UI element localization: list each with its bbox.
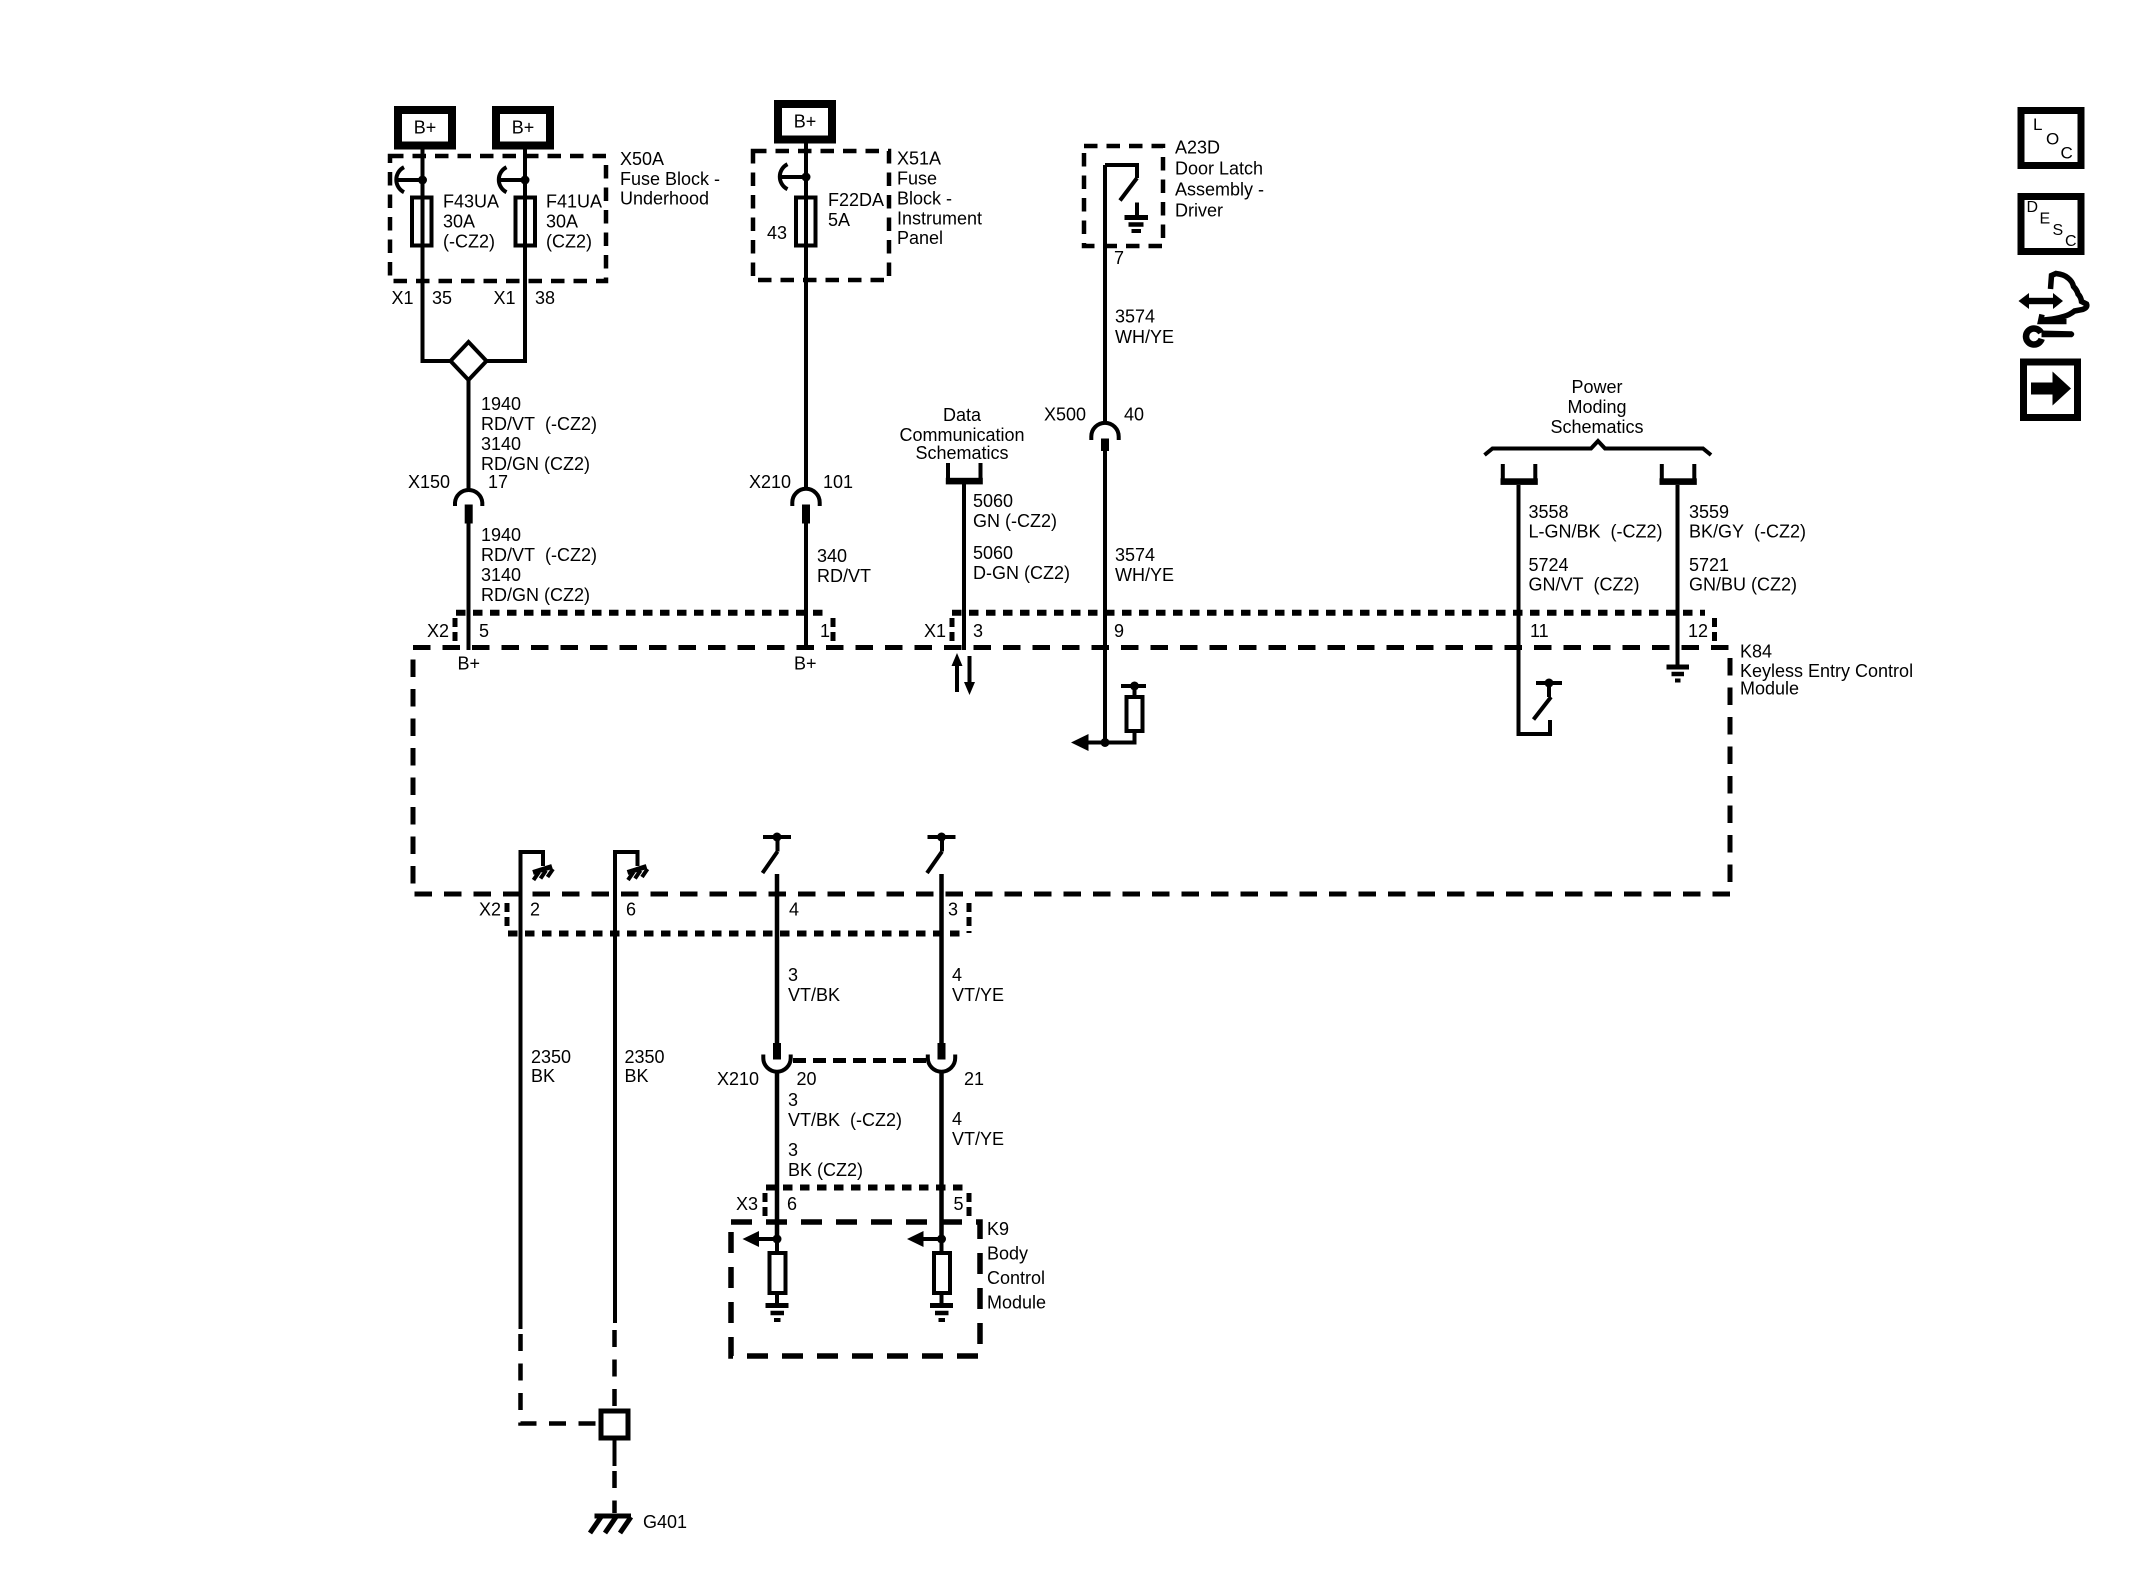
svg-text:O: O <box>2046 130 2059 149</box>
internal circuit K9 pin 5: arrow, resistor, ground <box>907 1231 953 1320</box>
fuse F22DA <box>796 198 816 246</box>
svg-text:2350: 2350 <box>531 1047 571 1067</box>
wire label 3 VT/BK <box>788 965 840 1005</box>
svg-text:B+: B+ <box>512 118 535 138</box>
svg-text:X500: X500 <box>1044 405 1086 425</box>
svg-text:X1: X1 <box>493 288 515 308</box>
svg-text:BK: BK <box>531 1066 555 1086</box>
svg-text:12: 12 <box>1688 621 1708 641</box>
wire from B+ 3 through fuse F22DA down to X210 <box>804 142 808 489</box>
tick after pin 12 <box>1712 618 1717 643</box>
svg-text:GN/BU (CZ2): GN/BU (CZ2) <box>1689 575 1797 595</box>
wire label 3574 WH/YE upper <box>1115 307 1174 348</box>
svg-text:1: 1 <box>820 621 830 641</box>
svg-text:K84: K84 <box>1740 642 1772 662</box>
connector pin row top (X2/X1) <box>456 610 1705 616</box>
connector pin row bottom (X2) <box>508 931 963 937</box>
fuse terminal clip symbol 3 <box>780 164 811 189</box>
svg-text:20: 20 <box>797 1069 817 1089</box>
wire from X500 down into module to pin 9 resistor node <box>1103 451 1107 743</box>
wire X210 21 down to K9 pin 5 <box>939 1072 944 1239</box>
svg-text:VT/BK (-CZ2): VT/BK (-CZ2) <box>788 1110 902 1130</box>
DESC info box <box>2021 197 2081 252</box>
pin label 3 <box>948 900 958 920</box>
svg-text:17: 17 <box>488 472 508 492</box>
svg-text:5: 5 <box>479 621 489 641</box>
ground inside A23D <box>1125 203 1149 232</box>
svg-text:B+: B+ <box>414 118 437 138</box>
wire from right connector to module pin 12 ground <box>1676 485 1680 666</box>
svg-text:3: 3 <box>788 1090 798 1110</box>
wire label 340 RD/VT <box>817 546 871 586</box>
svg-text:Module: Module <box>1740 679 1799 699</box>
forward reference icon box <box>2024 362 2078 418</box>
tick X2 bottom <box>505 903 510 928</box>
svg-text:11: 11 <box>1530 621 1549 641</box>
in-line connector X210 terminal 21 <box>928 1043 955 1072</box>
off-page connector for data communication <box>946 463 983 484</box>
switch symbol at pin 11 inside module <box>1534 679 1563 720</box>
label F43UA 30A (-CZ2) <box>443 192 499 252</box>
svg-text:3558: 3558 <box>1529 502 1569 522</box>
pin label 4 <box>789 900 799 920</box>
off-page connector to power moding right <box>1660 464 1697 485</box>
svg-text:Driver: Driver <box>1175 201 1223 221</box>
svg-text:VT/YE: VT/YE <box>952 1129 1004 1149</box>
wire pin 2 dashed part to splice <box>521 1334 597 1424</box>
svg-text:X2: X2 <box>479 900 501 920</box>
pin label 6 <box>626 900 636 920</box>
svg-text:BK (CZ2): BK (CZ2) <box>788 1160 863 1180</box>
svg-text:RD/VT (-CZ2): RD/VT (-CZ2) <box>481 414 597 434</box>
svg-text:(-CZ2): (-CZ2) <box>443 232 495 252</box>
internal label B+ pin 5 <box>458 654 481 674</box>
brace for power moding schematics <box>1485 441 1712 455</box>
label F22DA 5A <box>828 190 884 230</box>
pin label X1 35 <box>391 288 452 308</box>
fuse F43UA <box>412 198 432 246</box>
pin label 5 <box>954 1194 964 1214</box>
wire X210 20 down to K9 pin 6 <box>775 1072 780 1239</box>
svg-text:VT/BK: VT/BK <box>788 985 840 1005</box>
pin label 12 <box>1688 621 1708 641</box>
pin label X1 38 <box>493 288 555 308</box>
svg-text:3: 3 <box>973 621 983 641</box>
svg-text:D: D <box>2027 199 2039 216</box>
tick X3 <box>763 1193 768 1216</box>
svg-text:5721: 5721 <box>1689 555 1729 575</box>
svg-text:X50A: X50A <box>620 149 664 169</box>
internal ground hook pin 6 <box>615 852 648 894</box>
svg-text:340: 340 <box>817 546 847 566</box>
svg-text:RD/GN (CZ2): RD/GN (CZ2) <box>481 454 590 474</box>
tick after bottom pin 3 <box>967 903 972 933</box>
svg-text:GN/VT (CZ2): GN/VT (CZ2) <box>1529 575 1640 595</box>
svg-text:B+: B+ <box>458 654 481 674</box>
svg-text:WH/YE: WH/YE <box>1115 327 1174 347</box>
svg-text:RD/GN (CZ2): RD/GN (CZ2) <box>481 585 590 605</box>
pin label 1 <box>820 621 830 641</box>
svg-text:Fuse Block -: Fuse Block - <box>620 169 720 189</box>
connector label X150 17 <box>408 472 508 492</box>
door ajar switch inside A23D <box>1105 165 1137 201</box>
wire from data comm connector to module pin 3 <box>962 484 966 650</box>
svg-text:3574: 3574 <box>1115 545 1155 565</box>
body control module K9 dashed outline <box>731 1222 980 1356</box>
in-line connector X210 terminal 20 <box>763 1043 790 1072</box>
wire pin 6 to G401 solid part <box>613 874 617 1323</box>
svg-text:6: 6 <box>626 900 636 920</box>
svg-text:L-GN/BK (-CZ2): L-GN/BK (-CZ2) <box>1529 522 1663 542</box>
svg-text:Power: Power <box>1571 377 1622 397</box>
svg-text:GN (-CZ2): GN (-CZ2) <box>973 511 1057 531</box>
pin label 7 <box>1114 248 1124 268</box>
svg-text:Block -: Block - <box>897 189 952 209</box>
svg-text:E: E <box>2040 211 2051 228</box>
svg-text:43: 43 <box>767 223 787 243</box>
wire label 2350 BK left <box>531 1047 571 1086</box>
svg-text:3: 3 <box>788 965 798 985</box>
svg-text:F22DA: F22DA <box>828 190 884 210</box>
svg-text:3: 3 <box>948 900 958 920</box>
wire from B+ 1 through fuse F43UA down to splice <box>423 148 453 361</box>
wire label 3574 WH/YE lower <box>1115 545 1174 585</box>
ground symbol at pin 12 inside module <box>1667 667 1690 681</box>
wire label 1940 RD/VT (-CZ2) 3140 RD/GN (CZ2) upper <box>481 394 597 474</box>
svg-text:4: 4 <box>952 965 962 985</box>
svg-text:WH/YE: WH/YE <box>1115 565 1174 585</box>
svg-text:X210: X210 <box>749 472 791 492</box>
internal resistor circuit at pin 9 <box>1071 682 1146 752</box>
pin label 9 <box>1114 621 1124 641</box>
label X51A Fuse Block - Instrument Panel <box>897 149 982 249</box>
label F41UA 30A (CZ2) <box>546 192 602 252</box>
svg-text:Instrument: Instrument <box>897 209 982 229</box>
fuse terminal clip symbol 1 <box>396 167 427 192</box>
svg-text:Assembly -: Assembly - <box>1175 180 1264 200</box>
svg-text:X51A: X51A <box>897 149 941 169</box>
wire label 5060 GN (-CZ2) / 5060 D-GN (CZ2) <box>973 491 1070 583</box>
svg-text:6: 6 <box>787 1194 797 1214</box>
connector label X500 40 <box>1044 405 1144 425</box>
svg-text:BK/GY (-CZ2): BK/GY (-CZ2) <box>1689 522 1806 542</box>
svg-text:35: 35 <box>432 288 452 308</box>
svg-text:38: 38 <box>535 288 555 308</box>
svg-text:101: 101 <box>823 472 853 492</box>
pin label X2 5 <box>427 621 489 641</box>
fuse F41UA <box>516 198 536 246</box>
svg-text:X210: X210 <box>717 1069 759 1089</box>
tick X2 top <box>453 618 458 642</box>
svg-text:B+: B+ <box>794 654 817 674</box>
wire label 3 VT/BK (-CZ2) 3 BK (CZ2) <box>788 1090 902 1180</box>
svg-text:Body: Body <box>987 1244 1028 1264</box>
wire label 4 VT/YE lower <box>952 1109 1004 1149</box>
in-line connector X210 terminal 101 <box>792 489 819 524</box>
label A23D Door Latch Assembly - Driver <box>1175 138 1264 221</box>
svg-text:X150: X150 <box>408 472 450 492</box>
connector label X210 101 <box>749 472 853 492</box>
wire from splice down to X150 connector <box>467 380 471 489</box>
svg-text:5724: 5724 <box>1529 555 1569 575</box>
svg-text:(CZ2): (CZ2) <box>546 232 592 252</box>
svg-text:VT/YE: VT/YE <box>952 985 1004 1005</box>
svg-text:Schematics: Schematics <box>1550 417 1643 437</box>
svg-text:K9: K9 <box>987 1219 1009 1239</box>
ground G401 <box>590 1516 631 1533</box>
wire label 1940 RD/VT (-CZ2) 3140 RD/GN (CZ2) lower <box>481 525 597 605</box>
label Data Communication Schematics <box>899 405 1024 463</box>
in-line connector X150 terminal 17 (female arc over male pin) <box>455 490 482 524</box>
keyless entry module K84 dashed outline <box>413 648 1730 895</box>
pin label X3 6 <box>736 1194 797 1214</box>
svg-text:Control: Control <box>987 1268 1045 1288</box>
svg-text:5060: 5060 <box>973 543 1013 563</box>
svg-text:Door Latch: Door Latch <box>1175 159 1263 179</box>
wire from splice to G401 ground <box>613 1438 617 1513</box>
internal circuit K9 pin 6: arrow, resistor, ground <box>743 1231 789 1320</box>
svg-text:1940: 1940 <box>481 394 521 414</box>
pin label 11 <box>1530 621 1549 641</box>
svg-text:3140: 3140 <box>481 434 521 454</box>
B+ power symbol 3 <box>778 104 832 140</box>
repair instructions icon <box>2019 274 2087 345</box>
svg-text:30A: 30A <box>546 212 578 232</box>
label K9 Body Control Module <box>987 1219 1046 1313</box>
in-line connector X500 terminal 40 <box>1091 423 1118 451</box>
wire from door latch pin 7 to X500 <box>1103 165 1107 423</box>
wire from B+ 2 through fuse F41UA down to splice <box>485 148 525 361</box>
svg-text:B+: B+ <box>794 112 817 132</box>
internal ground hook pin 2 <box>521 852 554 894</box>
svg-text:X2: X2 <box>427 621 449 641</box>
connector label X210 20 21 <box>717 1069 984 1089</box>
label X50A Fuse Block - Underhood <box>620 149 720 209</box>
svg-text:Panel: Panel <box>897 228 943 248</box>
svg-text:40: 40 <box>1124 405 1144 425</box>
svg-text:X1: X1 <box>924 621 946 641</box>
svg-text:2350: 2350 <box>625 1047 665 1067</box>
door latch A23D dashed box <box>1084 146 1163 246</box>
LOC info box <box>2021 111 2081 166</box>
fuse terminal clip symbol 2 <box>499 167 530 192</box>
svg-text:7: 7 <box>1114 248 1124 268</box>
svg-text:F41UA: F41UA <box>546 192 602 212</box>
svg-text:5: 5 <box>954 1194 964 1214</box>
internal label B+ pin 1 <box>794 654 817 674</box>
B+ power symbol 2 <box>496 110 550 146</box>
svg-text:G401: G401 <box>643 1512 687 1532</box>
svg-text:4: 4 <box>789 900 799 920</box>
svg-text:A23D: A23D <box>1175 138 1220 158</box>
svg-text:C: C <box>2061 144 2073 163</box>
svg-text:Moding: Moding <box>1567 397 1626 417</box>
svg-text:RD/VT (-CZ2): RD/VT (-CZ2) <box>481 545 597 565</box>
internal switch pin 3 <box>927 833 956 874</box>
svg-text:Communication: Communication <box>899 425 1024 445</box>
svg-text:F43UA: F43UA <box>443 192 499 212</box>
wire from left connector to module pin 11 switch <box>1519 485 1551 734</box>
dashed connector link X210 <box>793 1058 926 1063</box>
wire from X210 101 down to module pin 1 <box>804 523 808 650</box>
svg-text:Module: Module <box>987 1293 1046 1313</box>
fuse block X50A dashed box <box>390 156 606 281</box>
wire from X150 down to module pin 5 <box>467 523 471 650</box>
svg-text:C: C <box>2065 233 2077 250</box>
svg-text:Schematics: Schematics <box>915 443 1008 463</box>
B+ power symbol 1 <box>398 110 452 146</box>
label Power Moding Schematics <box>1550 377 1643 437</box>
wire pin 6 dashed part to splice <box>612 1330 617 1408</box>
wire module pin 3 down to X210 21 <box>939 874 944 1044</box>
tick after X3 pin 5 <box>967 1193 972 1218</box>
splice junction box above G401 <box>601 1411 628 1438</box>
pin label 43 <box>767 223 787 243</box>
wire label 4 VT/YE <box>952 965 1004 1005</box>
svg-text:D-GN (CZ2): D-GN (CZ2) <box>973 563 1070 583</box>
serial data arrows inside module <box>952 653 976 695</box>
svg-text:L: L <box>2033 115 2042 134</box>
svg-text:1940: 1940 <box>481 525 521 545</box>
svg-text:3140: 3140 <box>481 565 521 585</box>
svg-text:X3: X3 <box>736 1194 758 1214</box>
svg-text:30A: 30A <box>443 212 475 232</box>
splice diamond <box>451 342 487 380</box>
wire label 3559 BK/GY (-CZ2) 5721 GN/BU (CZ2) <box>1689 502 1806 595</box>
off-page connector to power moding left <box>1501 464 1538 485</box>
svg-text:3574: 3574 <box>1115 307 1155 327</box>
svg-text:5060: 5060 <box>973 491 1013 511</box>
tick X1 top <box>950 618 955 642</box>
wire label 3558 L-GN/BK (-CZ2) 5724 GN/VT (CZ2) <box>1529 502 1663 595</box>
svg-text:4: 4 <box>952 1109 962 1129</box>
svg-text:Fuse: Fuse <box>897 169 937 189</box>
connector pin row X3 <box>766 1185 963 1191</box>
wire module pin 4 down to X210 20 <box>775 874 780 1044</box>
internal switch pin 4 <box>763 833 792 874</box>
tick after pin 1 <box>831 618 836 642</box>
svg-text:Data: Data <box>943 405 982 425</box>
label G401 <box>643 1512 687 1532</box>
fuse block X51A dashed box <box>753 151 889 280</box>
label K84 Keyless Entry Control Module <box>1740 642 1913 699</box>
wire pin 2 to G401 solid part <box>519 874 523 1329</box>
svg-text:S: S <box>2053 222 2064 239</box>
svg-text:BK: BK <box>625 1066 649 1086</box>
pin label X1 3 <box>924 621 983 641</box>
svg-text:X1: X1 <box>391 288 413 308</box>
pin label X2 2 <box>479 900 540 920</box>
svg-text:2: 2 <box>530 900 540 920</box>
svg-text:RD/VT: RD/VT <box>817 566 871 586</box>
svg-text:5A: 5A <box>828 210 850 230</box>
svg-text:3559: 3559 <box>1689 502 1729 522</box>
svg-text:3: 3 <box>788 1140 798 1160</box>
svg-text:Underhood: Underhood <box>620 189 709 209</box>
svg-text:21: 21 <box>964 1069 984 1089</box>
wire label 2350 BK right <box>625 1047 665 1086</box>
svg-text:9: 9 <box>1114 621 1124 641</box>
